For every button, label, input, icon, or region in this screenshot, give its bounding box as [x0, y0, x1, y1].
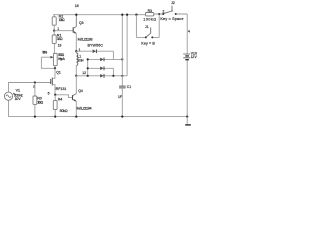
- resistor R3: [143, 9, 156, 22]
- svg-text:Key = Space: Key = Space: [160, 17, 183, 21]
- svg-text:MJL21193: MJL21193: [78, 37, 93, 41]
- wire vertical Va to C1: [121, 15, 123, 86]
- svg-text:10kΩ: 10kΩ: [59, 18, 65, 22]
- svg-text:C1: C1: [127, 85, 131, 89]
- svg-text:V1: V1: [16, 88, 20, 92]
- diode D1: [76, 49, 113, 59]
- diode D3: [87, 66, 114, 75]
- svg-text:1F: 1F: [118, 95, 122, 99]
- capacitor C1: [118, 85, 131, 117]
- ground: [185, 117, 191, 125]
- svg-text:Q3: Q3: [79, 21, 84, 25]
- svg-text:2: 2: [163, 10, 165, 14]
- diode D2: [87, 58, 124, 76]
- svg-text:Q4: Q4: [78, 89, 83, 93]
- node output / D4 row: [75, 75, 77, 77]
- node ground junction: [186, 115, 188, 117]
- svg-text:1mH: 1mH: [77, 59, 84, 63]
- resistor R4: [53, 95, 68, 117]
- wire Q3 base: [54, 30, 73, 32]
- svg-text:100kΩ: 100kΩ: [143, 18, 156, 22]
- svg-text:Key = B: Key = B: [141, 41, 155, 45]
- node R0 bottom rail: [34, 116, 36, 118]
- svg-text:3.3Ω: 3.3Ω: [57, 37, 63, 41]
- svg-text:Key=A: Key=A: [58, 57, 65, 61]
- source V1: [4, 88, 23, 101]
- node Q4 emitter bottom rail: [75, 115, 77, 117]
- svg-text:10 V: 10 V: [15, 97, 22, 101]
- diode D4: [76, 74, 127, 78]
- switch J2 Key = Space: [160, 1, 183, 21]
- svg-text:50kΩ: 50kΩ: [60, 109, 68, 113]
- wire output to Q4 collector: [75, 76, 77, 94]
- wire right supply rail: [186, 14, 188, 117]
- node Q4 base / R4: [54, 94, 56, 96]
- node Q3 collector on rail: [75, 14, 77, 16]
- node R2/R1/Q3 base: [53, 30, 55, 32]
- svg-text:J2: J2: [171, 1, 175, 5]
- transistor Q1 IRF131: [51, 68, 67, 95]
- node output top / D1: [75, 50, 77, 52]
- svg-text:12 V: 12 V: [191, 55, 198, 59]
- resistor R1: [52, 31, 63, 54]
- transistor Q3 MJL21193: [73, 15, 92, 52]
- node pot bottom: [54, 67, 56, 69]
- svg-text:MJL21194: MJL21194: [77, 107, 92, 111]
- potentiometer 500 Ohm Key=A: [41, 51, 65, 69]
- svg-text:12: 12: [82, 71, 86, 75]
- svg-text:4: 4: [188, 29, 190, 33]
- svg-text:BYW56C: BYW56C: [88, 44, 104, 48]
- svg-text:10kΩ: 10kΩ: [37, 101, 43, 105]
- node input / R0 top: [34, 81, 36, 83]
- resistor R0: [33, 83, 44, 117]
- node J1 riser: [135, 14, 137, 16]
- wire V1 loop top: [9, 83, 51, 117]
- svg-text:50%: 50%: [42, 51, 47, 55]
- svg-text:J1: J1: [145, 25, 149, 29]
- svg-text:18: 18: [75, 4, 79, 8]
- svg-text:R3: R3: [148, 9, 152, 13]
- resistor R2: [52, 15, 65, 31]
- battery V10 12V: [183, 52, 197, 60]
- switch J1 Key = B: [136, 13, 160, 45]
- wire vertical Vb: [126, 15, 128, 76]
- transistor Q4 MJL21194: [55, 89, 92, 117]
- wire top rail: [53, 14, 145, 16]
- svg-text:IRF131: IRF131: [55, 87, 67, 91]
- svg-text:6: 6: [48, 92, 50, 96]
- wire bottom rail: [9, 116, 188, 118]
- wire top rail right segment: [154, 13, 187, 15]
- inductor L1 1mH: [76, 51, 84, 76]
- node R4 bottom rail: [54, 116, 56, 118]
- svg-text:19: 19: [58, 43, 62, 47]
- svg-text:Q1: Q1: [56, 71, 61, 75]
- svg-text:R4: R4: [58, 98, 63, 102]
